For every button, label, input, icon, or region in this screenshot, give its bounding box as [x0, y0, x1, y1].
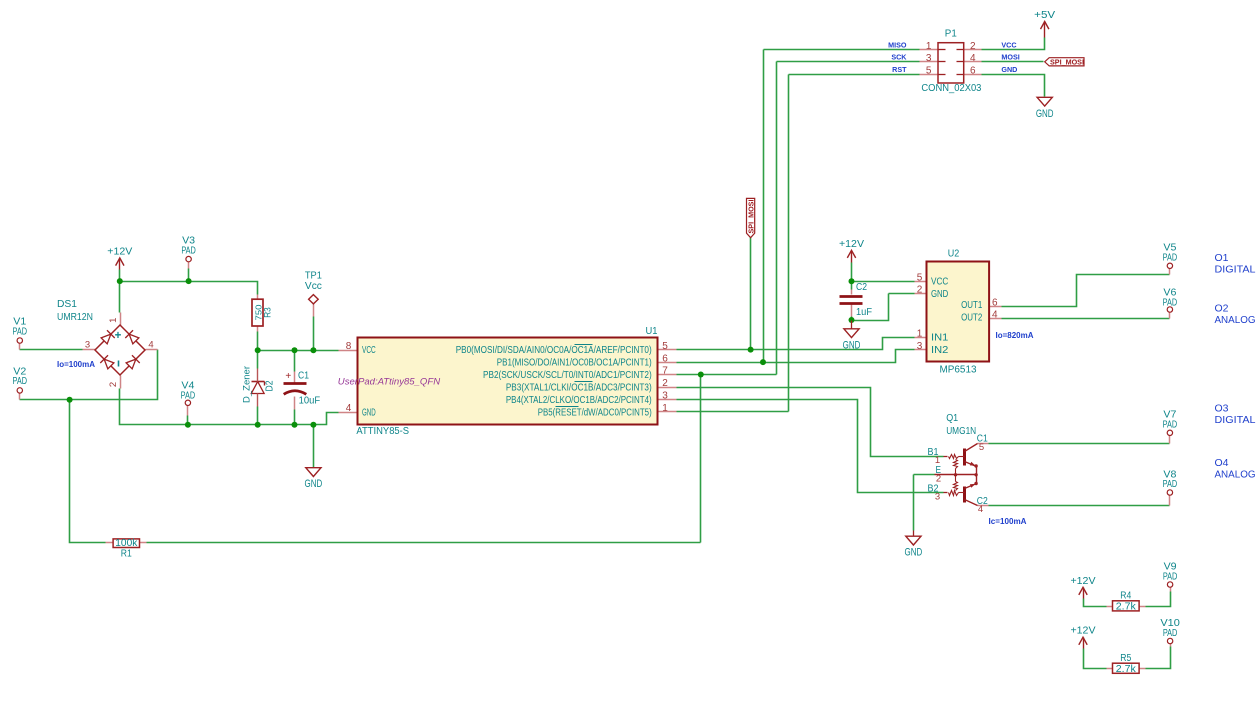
svg-text:D2: D2 [265, 380, 276, 391]
svg-text:TP1: TP1 [305, 271, 322, 282]
svg-text:ANALOG: ANALOG [1215, 469, 1256, 481]
svg-text:MOSI: MOSI [1001, 53, 1019, 62]
svg-text:8: 8 [346, 341, 352, 352]
svg-text:ANALOG: ANALOG [1215, 314, 1256, 326]
svg-text:O2: O2 [1215, 303, 1229, 315]
svg-text:O3: O3 [1215, 403, 1229, 415]
svg-text:ATTINY85-S: ATTINY85-S [356, 426, 409, 437]
svg-text:U1: U1 [646, 326, 658, 337]
svg-text:PAD: PAD [181, 245, 196, 256]
svg-text:PAD: PAD [1163, 628, 1178, 639]
svg-text:+5V: +5V [1034, 10, 1055, 21]
svg-text:5: 5 [926, 65, 932, 76]
svg-text:MISO: MISO [888, 40, 907, 49]
svg-text:R3: R3 [263, 307, 274, 318]
svg-text:PB0(MOSI/DI/SDA/AIN0/OC0A/OC1A: PB0(MOSI/DI/SDA/AIN0/OC0A/OC1A/AREF/PCIN… [456, 345, 652, 356]
svg-text:4: 4 [970, 53, 976, 64]
svg-text:+12V: +12V [839, 239, 864, 250]
svg-text:PB5(RESET/dW/ADC0/PCINT5): PB5(RESET/dW/ADC0/PCINT5) [538, 407, 652, 418]
svg-text:+12V: +12V [1071, 576, 1096, 587]
svg-text:VCC: VCC [1001, 40, 1016, 49]
svg-text:VCC: VCC [931, 277, 948, 288]
svg-text:PAD: PAD [1163, 479, 1178, 490]
svg-text:+: + [285, 371, 291, 382]
svg-text:4: 4 [346, 403, 352, 414]
svg-text:Ic=100mA: Ic=100mA [989, 517, 1027, 526]
svg-text:PAD: PAD [1163, 571, 1178, 582]
svg-text:VCC: VCC [362, 345, 376, 356]
svg-text:+12V: +12V [1071, 626, 1096, 637]
svg-text:2: 2 [108, 382, 119, 387]
svg-text:GND: GND [362, 407, 376, 418]
svg-text:GND: GND [1036, 108, 1054, 120]
svg-text:3: 3 [662, 391, 668, 402]
svg-text:C1: C1 [298, 371, 309, 382]
svg-text:4: 4 [992, 310, 998, 321]
svg-text:PAD: PAD [13, 326, 28, 337]
svg-text:2.7k: 2.7k [1116, 663, 1137, 675]
svg-text:10uF: 10uF [299, 395, 321, 406]
svg-text:PB2(SCK/USCK/SCL/T0/INT0/ADC1/: PB2(SCK/USCK/SCL/T0/INT0/ADC1/PCINT2) [483, 370, 652, 381]
svg-text:+12V: +12V [107, 247, 132, 258]
svg-text:6: 6 [662, 353, 668, 364]
svg-text:PB4(XTAL2/CLKO/OC1B/ADC2/PCINT: PB4(XTAL2/CLKO/OC1B/ADC2/PCINT4) [506, 395, 652, 406]
svg-text:D_Zener: D_Zener [242, 366, 253, 403]
svg-text:5: 5 [662, 341, 668, 352]
svg-text:UMG1N: UMG1N [946, 426, 976, 437]
svg-text:4: 4 [978, 504, 983, 515]
svg-text:SPI_MOSI: SPI_MOSI [747, 200, 756, 234]
svg-text:CONN_02X03: CONN_02X03 [921, 83, 981, 94]
svg-text:6: 6 [970, 65, 976, 76]
svg-text:SCK: SCK [891, 53, 907, 62]
svg-text:DIGITAL: DIGITAL [1215, 264, 1256, 276]
svg-text:+: + [115, 330, 122, 342]
svg-text:Q1: Q1 [946, 413, 958, 424]
svg-text:GND: GND [843, 339, 861, 351]
svg-text:3: 3 [926, 53, 932, 64]
svg-text:GND: GND [305, 478, 323, 490]
svg-text:IN1: IN1 [931, 333, 949, 344]
svg-text:U2: U2 [948, 249, 960, 260]
svg-text:GND: GND [905, 547, 923, 559]
svg-text:UserPad:ATtiny85_QFN: UserPad:ATtiny85_QFN [338, 377, 441, 387]
svg-text:Io=100mA: Io=100mA [57, 360, 95, 369]
svg-text:PAD: PAD [13, 376, 28, 387]
svg-text:PAD: PAD [1163, 297, 1178, 308]
svg-text:GND: GND [931, 289, 948, 300]
svg-text:7: 7 [662, 366, 668, 377]
svg-text:PAD: PAD [181, 390, 196, 401]
svg-text:1: 1 [662, 403, 668, 414]
svg-text:3: 3 [85, 339, 90, 350]
svg-text:1: 1 [917, 328, 923, 339]
svg-text:RST: RST [892, 65, 907, 74]
svg-text:OUT2: OUT2 [961, 312, 983, 323]
svg-text:DS1: DS1 [57, 299, 77, 310]
svg-text:O1: O1 [1215, 252, 1229, 264]
svg-text:PB3(XTAL1/CLKI/OC1B/ADC3/PCINT: PB3(XTAL1/CLKI/OC1B/ADC3/PCINT3) [506, 382, 652, 393]
svg-text:5: 5 [979, 442, 984, 453]
svg-text:3: 3 [917, 341, 923, 352]
svg-text:SPI_MOSI: SPI_MOSI [1050, 58, 1084, 67]
svg-text:1: 1 [108, 318, 119, 323]
svg-text:2: 2 [917, 285, 923, 296]
svg-text:5: 5 [917, 273, 923, 284]
svg-text:R1: R1 [121, 549, 132, 560]
svg-text:DIGITAL: DIGITAL [1215, 414, 1256, 426]
svg-text:PB1(MISO/DO/AIN1/OC0B/OC1A/PCI: PB1(MISO/DO/AIN1/OC0B/OC1A/PCINT1) [497, 358, 652, 369]
svg-text:2: 2 [970, 41, 976, 52]
svg-text:Io=820mA: Io=820mA [996, 331, 1034, 340]
svg-text:PAD: PAD [1163, 419, 1178, 430]
svg-text:3: 3 [935, 491, 940, 502]
svg-text:OUT1: OUT1 [961, 300, 983, 311]
svg-text:MP6513: MP6513 [940, 365, 977, 376]
svg-text:4: 4 [148, 339, 153, 350]
svg-text:2.7k: 2.7k [1116, 601, 1137, 613]
svg-text:6: 6 [992, 298, 998, 309]
svg-text:PAD: PAD [1163, 252, 1178, 263]
svg-text:UMR12N: UMR12N [57, 312, 93, 323]
svg-text:GND: GND [1001, 65, 1017, 74]
svg-text:IN2: IN2 [931, 345, 949, 356]
svg-text:P1: P1 [945, 29, 957, 40]
svg-text:C2: C2 [856, 282, 867, 293]
svg-text:Vcc: Vcc [305, 281, 322, 292]
svg-text:1uF: 1uF [856, 307, 872, 318]
svg-text:2: 2 [662, 378, 668, 389]
svg-text:1: 1 [926, 41, 932, 52]
svg-text:100k: 100k [115, 537, 138, 549]
svg-text:O4: O4 [1215, 457, 1229, 469]
